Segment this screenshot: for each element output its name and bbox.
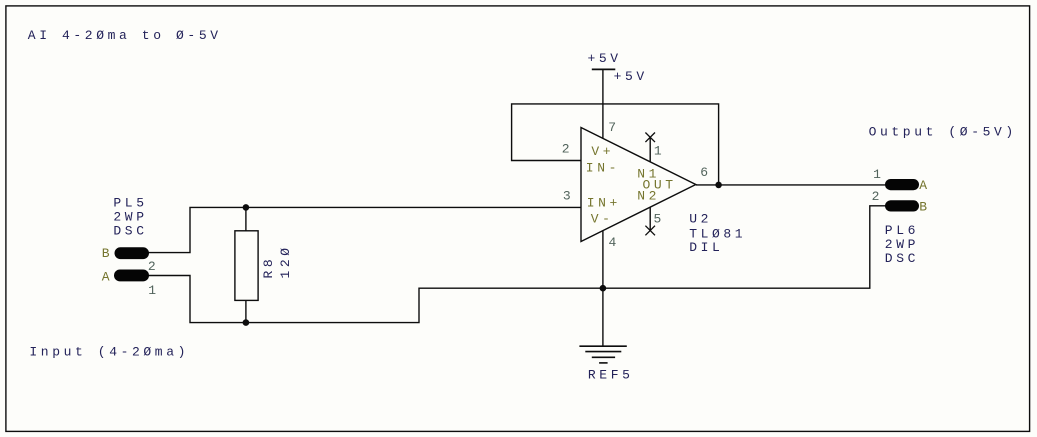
ground REF5 symbol: [579, 346, 626, 363]
connector PL6 pin A pad: [885, 179, 919, 190]
wire resistor bottom: [245, 300, 247, 322]
svg-text:2: 2: [148, 259, 159, 274]
svg-text:5: 5: [654, 211, 665, 226]
svg-text:12Ø: 12Ø: [278, 244, 293, 278]
svg-text:Output (Ø-5V): Output (Ø-5V): [869, 124, 1017, 139]
svg-text:+5V: +5V: [614, 69, 648, 84]
pin 5 no-connect stub: [649, 208, 651, 231]
pin 1 no-connect X: [645, 133, 655, 143]
svg-text:4: 4: [609, 235, 620, 250]
svg-text:2WP: 2WP: [885, 237, 919, 252]
svg-text:A: A: [919, 178, 930, 193]
node junction resistor bottom: [243, 319, 250, 326]
connector PL6 pin B pad: [885, 200, 919, 211]
svg-text:PL6: PL6: [885, 223, 919, 238]
svg-text:2: 2: [562, 141, 573, 156]
svg-text:1: 1: [148, 283, 159, 298]
svg-text:7: 7: [608, 120, 619, 135]
svg-text:A: A: [102, 270, 113, 285]
node junction output feedback: [715, 182, 722, 189]
op-amp U2 triangle: [581, 128, 696, 242]
wire top rail B/IN+: [148, 207, 581, 252]
svg-text:PL5: PL5: [113, 196, 147, 211]
node junction resistor top: [243, 204, 250, 211]
svg-text:U2: U2: [689, 212, 712, 227]
wire bottom rail A net: [148, 206, 886, 323]
wire feedback loop OUT to IN-: [512, 104, 719, 185]
pin 5 no-connect X: [645, 226, 655, 236]
svg-text:+5V: +5V: [588, 51, 622, 66]
svg-text:V-: V-: [591, 211, 614, 226]
node junction ground net: [600, 285, 607, 292]
svg-text:B: B: [919, 200, 930, 215]
svg-text:1: 1: [654, 144, 665, 159]
svg-text:DSC: DSC: [885, 251, 919, 266]
svg-text:R8: R8: [261, 256, 276, 279]
svg-text:2: 2: [872, 189, 883, 204]
svg-text:1: 1: [873, 167, 884, 182]
wire pin 4 to ground: [602, 230, 604, 346]
svg-text:TLØ81: TLØ81: [689, 226, 746, 241]
svg-text:V+: V+: [591, 144, 614, 159]
svg-text:REF5: REF5: [588, 367, 634, 382]
svg-text:DIL: DIL: [689, 240, 723, 255]
svg-text:6: 6: [700, 165, 711, 180]
wire output pin 6: [696, 184, 886, 186]
svg-text:3: 3: [563, 189, 574, 204]
svg-text:IN-: IN-: [586, 161, 620, 176]
power +5V bar: [592, 68, 616, 70]
svg-text:Input (4-2Øma): Input (4-2Øma): [29, 345, 189, 360]
svg-text:DSC: DSC: [113, 223, 147, 238]
wire +5V to pin 7: [602, 69, 604, 138]
svg-text:AI 4-2Øma to Ø-5V: AI 4-2Øma to Ø-5V: [28, 28, 222, 43]
connector PL5 pin B pad: [115, 247, 150, 259]
wire resistor top: [245, 207, 247, 230]
connector PL5 pin A pad: [114, 270, 149, 282]
svg-text:B: B: [102, 246, 113, 261]
svg-text:N2: N2: [637, 189, 660, 204]
resistor R8 body: [235, 231, 258, 301]
pin 1 no-connect stub: [649, 137, 651, 162]
svg-text:IN+: IN+: [587, 195, 621, 210]
svg-text:2WP: 2WP: [113, 209, 147, 224]
